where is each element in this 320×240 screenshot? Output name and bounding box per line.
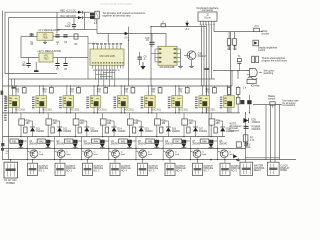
wire opto U5 output [66, 107, 71, 113]
wire triac 7 [186, 137, 191, 161]
junction driver 3 [75, 136, 76, 137]
wire opto U9 output [175, 107, 180, 113]
note clock [230, 123, 243, 132]
label U3 pins [5, 97, 8, 109]
relay K2 [247, 77, 257, 84]
junction gate rail [231, 70, 238, 71]
capacitor C6 [26, 58, 30, 69]
diode D15 [136, 121, 144, 137]
transistor Q4B [109, 150, 120, 160]
label triac Q8 [196, 151, 200, 155]
junction channel 5 anode [121, 85, 126, 86]
transistor Q6B [163, 150, 174, 160]
connector J5 [83, 163, 93, 175]
label U8 [151, 109, 162, 111]
optocoupler U8 [145, 96, 156, 108]
svg-text:REG: REG [246, 147, 251, 149]
capacitor C21 [244, 126, 249, 129]
wire right margin [230, 32, 232, 95]
svg-text:MOC3011: MOC3011 [178, 109, 189, 111]
svg-text:circuits: circuits [262, 33, 270, 36]
wire R24 top [102, 113, 104, 119]
label load 1 [39, 151, 44, 156]
bus output rail [3, 147, 246, 149]
svg-text:MOC3011: MOC3011 [15, 109, 26, 111]
svg-text:+5 V REGULATOR: +5 V REGULATOR [38, 28, 60, 32]
capacitor C16 [155, 140, 159, 144]
label triac Q6 [141, 151, 145, 155]
junction channel 6 anode [148, 85, 153, 86]
wire J2 col2 [206, 25, 208, 113]
label P1 [4, 179, 17, 185]
ground regulator A [43, 40, 47, 43]
wire R22 bottom [47, 125, 49, 137]
wire opto U7 output [121, 107, 126, 113]
svg-text:NO. 7: NO. 7 [204, 171, 211, 173]
svg-text:PANEL: PANEL [280, 169, 288, 172]
resistor R24 [100, 119, 112, 125]
wire opto U4 output [39, 107, 44, 113]
capacitor C13 [73, 140, 77, 144]
svg-text:NO. 3: NO. 3 [94, 171, 101, 173]
resistor R17 [185, 86, 189, 93]
wire R22 top [47, 113, 49, 119]
label R18 [206, 89, 211, 93]
wire connector J4 [59, 159, 60, 163]
svg-text:K2 relay: K2 relay [251, 86, 260, 88]
label connector J8 [176, 166, 186, 173]
bus fan rail [9, 78, 216, 80]
resistor R31 [24, 127, 27, 133]
svg-text:1N4004: 1N4004 [145, 131, 154, 133]
resistor R5 [236, 86, 240, 97]
connector J7 [138, 163, 148, 175]
junction output 4 [108, 148, 109, 149]
label U10 [205, 109, 216, 111]
svg-text:+12 V REGULATOR: +12 V REGULATOR [37, 49, 61, 53]
node +5V rail arrow [124, 32, 129, 40]
diode D1 [78, 11, 83, 14]
svg-text:10uF: 10uF [65, 26, 71, 28]
node +5V clock [254, 26, 260, 31]
fuse F1 [95, 11, 100, 19]
diode D16 [163, 121, 171, 137]
wire R25 top [129, 113, 131, 119]
label master control [268, 95, 276, 107]
crystal Y1 [237, 56, 241, 70]
label U9 pins [168, 97, 171, 109]
bus AC neutral rail [3, 159, 297, 161]
label J2 heading [197, 6, 219, 12]
junction output 1 [27, 148, 28, 149]
svg-text:program the on/off times: program the on/off times [262, 59, 288, 62]
svg-text:BLK GROUND: BLK GROUND [61, 16, 77, 18]
svg-text:7805: 7805 [42, 37, 48, 39]
label connector J10 [231, 166, 241, 173]
resistor R46 [146, 139, 155, 143]
junction channel 8 anode [202, 85, 207, 86]
wire clock col1 [231, 71, 233, 86]
label R4 R5 [243, 87, 247, 89]
svg-text:1N4004: 1N4004 [63, 131, 72, 133]
label R13 [70, 89, 75, 93]
wire regulator feed [57, 12, 97, 33]
wire connector J6 [114, 159, 115, 163]
resistor R22 [46, 119, 58, 125]
optocoupler U7 [117, 96, 128, 108]
svg-text:MOC3011: MOC3011 [124, 109, 135, 111]
resistor R44 [92, 139, 101, 143]
diode D18 [217, 121, 225, 137]
wire opto U6 output [93, 107, 98, 113]
svg-text:MOC3011: MOC3011 [151, 109, 162, 111]
svg-text:+5 V: +5 V [254, 26, 259, 28]
svg-text:RELAY: RELAY [254, 169, 262, 172]
wire VR1 input [21, 35, 37, 37]
U1 output wires [95, 68, 115, 86]
resistor R15 [131, 86, 135, 93]
svg-text:5 percent: 5 percent [230, 130, 240, 133]
triac Q1 [18, 139, 23, 147]
label R14 [97, 89, 102, 93]
label Q2 type [56, 141, 65, 146]
svg-text:VR1: VR1 [43, 35, 48, 37]
wire R27 top [183, 113, 185, 119]
label C1 [30, 42, 34, 46]
resistor R48 [200, 139, 209, 143]
label Q6 type [165, 141, 174, 146]
junction channel 1 anode [12, 85, 17, 86]
resistor R42 [37, 139, 46, 143]
wire R28 top [210, 113, 212, 119]
wire ground input rail [9, 18, 79, 160]
wire triac 8 [213, 137, 218, 161]
fuse holder K1 [90, 13, 94, 19]
junction driver 1 [20, 136, 21, 137]
label Q10 [198, 53, 207, 58]
connector J9 [193, 163, 203, 175]
resistor R7 [243, 135, 248, 142]
svg-text:switching: switching [264, 72, 274, 75]
connector J8 [165, 163, 175, 175]
junction AC rail [210, 159, 238, 161]
label U7 [124, 109, 135, 111]
wire opto U3 output [12, 107, 17, 113]
connector J11 [240, 162, 253, 175]
wire U1 supply [107, 34, 109, 44]
U2 left pins [151, 48, 161, 62]
svg-text:2N6342: 2N6342 [84, 143, 93, 145]
svg-text:NO. 6: NO. 6 [176, 171, 183, 173]
label C2 [56, 42, 60, 46]
U1 top pins [88, 40, 129, 49]
label triac Q7 [169, 151, 173, 155]
label D11 [36, 128, 45, 132]
op-amp U2 buffer [158, 46, 177, 65]
label C21 [252, 127, 261, 131]
label connector J9 [204, 166, 214, 173]
label D15 [145, 128, 154, 132]
svg-text:MOC3011: MOC3011 [205, 109, 216, 111]
optocoupler U5 [63, 96, 74, 108]
J2 pins [200, 21, 215, 25]
label output modules [4, 96, 6, 121]
label C10 [145, 38, 150, 42]
wire J2 col1 [202, 25, 205, 86]
regulator VR2 [39, 53, 53, 62]
connector P1 [4, 162, 18, 178]
svg-text:MC14514B: MC14514B [99, 54, 114, 58]
resistor R2 [227, 32, 231, 50]
label U7 pins [113, 97, 116, 109]
label U5 pins [59, 97, 62, 109]
svg-text:NO. 4: NO. 4 [121, 171, 128, 173]
label load 6 [175, 151, 180, 156]
resistor R6 [236, 94, 244, 113]
resistor R23 [73, 119, 85, 125]
wire opto U10 output [202, 107, 207, 113]
diode D13 [82, 121, 90, 137]
wire R26 bottom [156, 125, 158, 137]
label Q3 type [84, 141, 93, 146]
svg-text:1N4004: 1N4004 [118, 131, 127, 133]
junction output 5 [135, 148, 136, 149]
label Q7 type [192, 141, 201, 146]
wire R21 top [20, 113, 22, 119]
label C5 [65, 24, 71, 28]
label D3 [258, 46, 278, 51]
resistor R43 [64, 139, 73, 143]
label R7 [250, 137, 255, 141]
wire top distribution rail [151, 26, 206, 28]
label C6 [22, 63, 26, 67]
triac Q2 [46, 139, 51, 147]
page header text [100, 2, 132, 6]
svg-text:2N6342: 2N6342 [219, 143, 228, 145]
svg-text:control: control [268, 98, 276, 101]
label Q8 type [219, 141, 228, 146]
bus main LED supply rail [3, 85, 231, 87]
transistor Q5B [136, 150, 147, 160]
wire +12V input rail [5, 11, 78, 13]
triac Q8 [209, 139, 214, 147]
connector J4 [55, 163, 65, 175]
diode D3 [253, 40, 259, 46]
optocoupler U11 [224, 96, 235, 108]
label D20 [252, 119, 261, 123]
label load 2 [66, 151, 71, 156]
diode D14 [109, 121, 117, 137]
junction channel 3 anode [66, 85, 71, 86]
svg-text:+5 V: +5 V [185, 29, 190, 31]
svg-text:2N6342: 2N6342 [165, 143, 174, 145]
svg-text:MOC3011: MOC3011 [70, 109, 81, 111]
wire U1 right column [128, 27, 130, 86]
transistor Q7B [190, 150, 201, 160]
bus opto emitter rail [3, 112, 241, 114]
label C8 [64, 69, 68, 71]
diode D17 [190, 121, 198, 137]
svg-text:7812: 7812 [43, 59, 49, 61]
wire opto U7 LED feed [121, 86, 125, 96]
wire VR feed column [21, 36, 39, 57]
wire opto U6 LED feed [94, 86, 98, 96]
wire opto U5 LED feed [67, 86, 71, 96]
svg-text:together at terminal strip: together at terminal strip [103, 14, 132, 18]
gate U5 [247, 69, 263, 77]
capacitor C10 [150, 34, 155, 48]
wire opto U9 LED feed [176, 86, 180, 96]
resistor R33 [78, 127, 81, 133]
svg-text:2N6342: 2N6342 [29, 143, 38, 145]
ground U2 [178, 49, 183, 69]
svg-text:2N6342: 2N6342 [138, 143, 147, 145]
wire R25 bottom [129, 125, 131, 137]
wire triac 4 [105, 137, 110, 161]
capacitor C9 [138, 52, 142, 65]
svg-text:control: control [258, 49, 266, 52]
connector J2 [198, 12, 217, 21]
label connector J4 [66, 166, 76, 173]
wire opto U10 LED feed [203, 86, 207, 96]
label Q5 type [138, 141, 147, 146]
label U11 [220, 97, 223, 109]
resistor R35 [132, 127, 135, 133]
label C9 [144, 56, 148, 60]
resistor R36 [160, 127, 163, 133]
svg-text:POWER: POWER [6, 183, 15, 185]
wire connector J3 [32, 159, 33, 163]
resistor R38 [214, 127, 217, 133]
junction driver 2 [48, 136, 49, 137]
capacitor C11 [19, 140, 23, 144]
wire +5V rail [97, 30, 166, 47]
wire triac 3 [78, 137, 83, 161]
wire left channel feeds [12, 79, 15, 86]
resistor R13 [77, 86, 81, 93]
wire connector J8 [169, 159, 170, 163]
wire gate input rail [213, 70, 250, 72]
junction channel 7 anode [175, 85, 180, 86]
ground Q10 [189, 60, 194, 68]
wire triac 6 [159, 137, 164, 161]
triac Q4 [100, 139, 105, 147]
label VR2 heading [37, 49, 61, 53]
bus driver rail [3, 136, 226, 138]
label U4 [42, 109, 53, 111]
resistor R1 [74, 34, 78, 46]
label +12V wire [60, 10, 76, 12]
label D17 [199, 128, 208, 132]
capacitor C20 [247, 95, 251, 114]
svg-text:MOC3011: MOC3011 [97, 109, 108, 111]
wire U1 fan jogs [96, 73, 115, 77]
svg-text:NO. 2: NO. 2 [66, 171, 73, 173]
resistor R47 [173, 139, 182, 143]
snubber R8 [236, 142, 248, 147]
label connector J6 [121, 166, 131, 173]
ground right [237, 158, 240, 161]
label R12 [43, 89, 48, 93]
wire J2 col4 [213, 25, 215, 31]
node left terminal [1, 91, 4, 95]
connector J12 [268, 162, 280, 175]
svg-text:16 pin: 16 pin [204, 18, 211, 20]
label U5 [264, 69, 276, 74]
label U6 [97, 109, 108, 111]
wire regulator drop [87, 36, 89, 79]
junction driver 6 [156, 136, 157, 137]
ground bar right [204, 68, 209, 70]
wire R26 top [156, 113, 158, 119]
capacitor C8 [63, 58, 67, 67]
junction output 6 [163, 148, 164, 149]
connector J6 [110, 163, 120, 175]
node +5V arrow [185, 21, 190, 31]
label J12 [280, 165, 290, 172]
svg-text:2N6342: 2N6342 [111, 143, 120, 145]
junction U2 feed [150, 26, 151, 27]
junction driver 5 [129, 136, 130, 137]
capacitor C12 [46, 140, 50, 144]
wire opto U11 output [228, 107, 232, 113]
label connector J5 [94, 166, 104, 173]
junction channel 4 anode [93, 85, 98, 86]
capacitor C3 [63, 34, 67, 37]
connector J10 [220, 163, 230, 175]
wire clock feed rail [214, 31, 254, 33]
U2 right pins [174, 48, 181, 62]
optocoupler U10 [199, 96, 210, 108]
U1 bottom pins [93, 65, 123, 68]
svg-text:SOLID-STATE SWITCHING: SOLID-STATE SWITCHING [100, 2, 132, 6]
svg-text:2N6342: 2N6342 [56, 143, 65, 145]
wire R21 bottom [20, 125, 22, 137]
wire J2 col3 [209, 25, 212, 136]
triac Q7 [181, 139, 186, 147]
optocoupler U3 [9, 96, 20, 108]
label R2 R3 [227, 47, 237, 51]
label connector J7 [149, 166, 159, 173]
capacitor C17 [182, 140, 186, 144]
svg-text:connector: connector [202, 8, 214, 12]
capacitor C18 [209, 140, 213, 144]
wire right col2 [270, 105, 272, 163]
ground regulator B [34, 62, 39, 72]
resistor R27 [182, 119, 194, 125]
junction output 7 [190, 148, 191, 149]
svg-text:2N6342: 2N6342 [192, 143, 201, 145]
svg-text:VR2: VR2 [44, 55, 49, 57]
resistor R34 [105, 127, 108, 133]
triac Q5 [127, 139, 132, 147]
svg-text:1N4004: 1N4004 [252, 122, 261, 124]
label triac Q5 [114, 151, 118, 155]
ferrite bead L1 [161, 22, 166, 27]
label Q4 type [111, 141, 120, 146]
junction driver 4 [102, 136, 103, 137]
label U2 [160, 65, 175, 69]
label triac Q4 [87, 151, 91, 155]
svg-text:1N4004: 1N4004 [90, 131, 99, 133]
junction output 8 [217, 148, 218, 149]
svg-text:MOC3011: MOC3011 [42, 109, 53, 111]
label U10 pins [195, 97, 198, 109]
switch S1 [252, 56, 259, 62]
label R17 [178, 89, 183, 93]
note tie-wires [103, 11, 146, 18]
label triac Q3 [60, 151, 64, 155]
